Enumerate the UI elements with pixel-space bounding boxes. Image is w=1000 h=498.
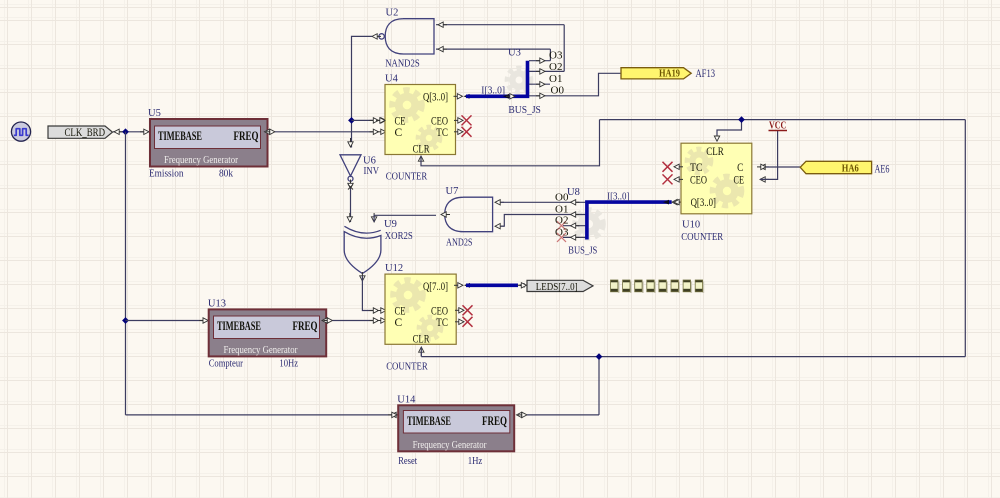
wire U2 input bottom from O3 riser [436, 46, 550, 51]
wire U7 bottom input step to U8.O1 [501, 215, 570, 227]
svg-text:U14: U14 [397, 395, 416, 406]
svg-text:U13: U13 [208, 299, 226, 310]
port LEDS[7..0] [527, 280, 593, 293]
svg-text:Q[7..0]: Q[7..0] [423, 281, 448, 293]
wire U13.FREQ to U12.C [333, 318, 387, 323]
svg-text:CE: CE [395, 305, 406, 317]
U3 fan O3 [529, 50, 563, 64]
bus arrow [464, 283, 470, 288]
svg-text:U12: U12 [385, 263, 403, 274]
svg-text:C: C [395, 317, 403, 329]
wire U14.FREQ up to reset net [527, 414, 599, 416]
counter U10 (mirrored) [681, 143, 752, 214]
wire to U13 input [126, 318, 209, 323]
svg-text:O2: O2 [555, 215, 568, 227]
wire U9 right input from U7 output [374, 215, 436, 222]
pin arrow U10.TC nc [663, 162, 684, 172]
svg-text:Frequency Generator: Frequency Generator [224, 344, 298, 356]
power VCC [769, 120, 788, 131]
bus arrows mid [503, 94, 515, 99]
svg-text:C: C [395, 127, 403, 139]
pin arrow U10.CEO nc [663, 174, 684, 184]
pin arrow U7 input top [495, 200, 504, 205]
svg-text:U3: U3 [508, 48, 521, 59]
svg-text:FREQ: FREQ [482, 413, 507, 428]
pin arrow U12.CLR [419, 347, 424, 356]
svg-text:CLR: CLR [706, 146, 724, 158]
nand gate U2 (mirrored) [379, 19, 434, 54]
svg-text:TC: TC [436, 127, 448, 139]
pin arrows U5 right [265, 129, 276, 134]
junction CLK node [122, 128, 129, 135]
wire U10.CLR to reset rail [717, 120, 742, 135]
svg-text:Reset: Reset [398, 455, 417, 467]
U3 fan O1 stub [529, 73, 562, 87]
port HA19 [621, 68, 691, 80]
svg-text:FREQ: FREQ [293, 318, 318, 333]
LED array [611, 280, 705, 293]
and gate U7 (mirrored) [445, 197, 493, 232]
svg-text:CE: CE [395, 116, 406, 128]
U8 fan O0 [555, 191, 587, 205]
svg-text:1Hz: 1Hz [468, 455, 483, 467]
svg-text:Emission: Emission [149, 168, 184, 180]
svg-text:10Hz: 10Hz [279, 357, 298, 369]
wire riser O2 to U2 [563, 25, 565, 72]
svg-text:U9: U9 [384, 219, 397, 230]
svg-text:CE: CE [734, 175, 745, 187]
bus arrows to U10 [663, 199, 681, 204]
pin arrow U9 output [360, 272, 365, 281]
svg-text:FREQ: FREQ [234, 128, 259, 143]
svg-text:TIMEBASE: TIMEBASE [217, 318, 261, 333]
gear watermark behind U3 [507, 68, 531, 92]
pin arrow U10.C [757, 164, 769, 169]
pin arrow U10.Q [674, 199, 683, 204]
pin arrow U4.Q out [454, 94, 463, 99]
svg-text:CLR: CLR [413, 333, 430, 345]
wire U12.CLR to reset rail [420, 347, 422, 357]
U8 fan O3 nc [555, 226, 587, 242]
pin arrow U12.CEO nc [455, 305, 473, 315]
svg-text:BUS_JS: BUS_JS [508, 104, 541, 116]
U8 fan O1 [555, 204, 587, 218]
pin arrow U2 output [372, 34, 381, 39]
port HA6 [800, 161, 871, 174]
svg-text:O2: O2 [549, 61, 562, 73]
wire U5.FREQ to U4.C [275, 129, 386, 134]
junction U13 tap [122, 317, 129, 324]
svg-text:Q[3..0]: Q[3..0] [423, 91, 448, 103]
svg-text:TC: TC [436, 317, 448, 329]
timebase U13 [209, 309, 327, 356]
svg-text:Compteur: Compteur [209, 357, 244, 369]
svg-text:TIMEBASE: TIMEBASE [407, 413, 451, 428]
svg-text:CEO: CEO [690, 175, 707, 187]
counter U12 [385, 274, 456, 345]
svg-text:AND2S: AND2S [446, 237, 473, 249]
wire CLK vertical left rail [125, 132, 127, 415]
U3 fan O2 [529, 61, 564, 74]
timebase U5 [150, 119, 268, 167]
wire to U4.CE [352, 118, 387, 123]
pin arrows U14 right [517, 412, 528, 417]
bus U8 vertical [587, 202, 672, 239]
U3 fan O0 to HA19 [529, 73, 621, 98]
junction U10.CLR [738, 116, 745, 123]
wire bottom reset rail [421, 356, 965, 358]
wire U9 output to U12.CE [362, 276, 386, 313]
svg-text:XOR2S: XOR2S [385, 230, 413, 242]
svg-text:AF13: AF13 [696, 68, 716, 80]
pin arrow U9 input right [371, 213, 376, 222]
pin arrow U4.TC nc [454, 127, 472, 137]
pin arrow U4.CLR [418, 156, 423, 165]
junction reset/U14 [596, 353, 603, 360]
svg-text:U4: U4 [385, 74, 399, 85]
svg-text:AE6: AE6 [875, 163, 890, 175]
wire right reset rail [964, 120, 966, 357]
svg-text:O0: O0 [555, 191, 569, 203]
svg-text:U5: U5 [148, 108, 161, 119]
U8 fan O2 nc [555, 215, 587, 231]
bus U12.Q to LEDS [466, 283, 518, 287]
pin arrow U7 output [441, 212, 450, 217]
counter U4 [385, 85, 456, 156]
pin arrows U13 right [322, 318, 333, 323]
svg-text:HA6: HA6 [842, 163, 859, 175]
svg-text:Frequency Generator: Frequency Generator [164, 154, 238, 166]
wire U2 input top from O2 riser [436, 22, 564, 27]
svg-text:TIMEBASE: TIMEBASE [158, 128, 202, 143]
svg-text:O1: O1 [549, 73, 562, 85]
clock source icon [11, 122, 30, 141]
svg-text:C: C [737, 162, 743, 174]
pin arrow U12.TC nc [455, 317, 473, 327]
pin arrow U12.Q out [454, 283, 463, 288]
bus U4.Q to U3 [466, 61, 528, 97]
gear watermark behind U8 [575, 210, 603, 238]
wire U7 top input to U8.O0 [501, 201, 570, 203]
wire CLK_BRD to U5 [113, 129, 150, 134]
svg-text:I[3..0]: I[3..0] [481, 85, 505, 96]
svg-text:O1: O1 [555, 204, 568, 216]
svg-text:U10: U10 [682, 220, 700, 231]
svg-text:Frequency Generator: Frequency Generator [413, 439, 487, 451]
svg-text:COUNTER: COUNTER [386, 361, 428, 373]
svg-text:COUNTER: COUNTER [386, 171, 428, 183]
bus arrow in [464, 94, 470, 99]
wire U4.CLR to reset loop [421, 120, 600, 166]
svg-text:I[3..0]: I[3..0] [607, 192, 629, 203]
svg-text:U8: U8 [567, 187, 580, 198]
pin arrow U10.CLR [714, 132, 719, 141]
wire to U14 input [126, 412, 401, 417]
inverter U6 [340, 155, 361, 181]
wire U2 output to CE/INV rail [352, 36, 373, 147]
svg-text:80k: 80k [219, 168, 233, 180]
svg-text:CLR: CLR [413, 144, 430, 156]
svg-text:CLK_BRD: CLK_BRD [65, 127, 106, 139]
wire U10.CE to VCC [760, 131, 778, 179]
bus arrows at LEDS [518, 283, 527, 288]
pin arrow U6 output [348, 180, 353, 189]
pin arrow U10.CE [760, 177, 769, 182]
svg-text:Q[3..0]: Q[3..0] [691, 197, 716, 209]
svg-text:CEO: CEO [431, 116, 448, 128]
pin arrow U4.CEO nc [454, 115, 472, 125]
timebase U14 [398, 405, 514, 451]
port CLK_BRD [48, 126, 113, 139]
svg-text:COUNTER: COUNTER [681, 231, 724, 243]
svg-text:U2: U2 [386, 8, 399, 19]
wire U6 to U9 [350, 189, 352, 223]
svg-text:O0: O0 [551, 85, 565, 97]
svg-text:VCC: VCC [769, 120, 786, 131]
pin arrow U4.CE in [376, 118, 385, 123]
svg-text:U7: U7 [446, 186, 459, 197]
svg-text:NAND2S: NAND2S [385, 57, 420, 69]
pin arrow U7 input bottom [495, 224, 504, 229]
svg-text:O3: O3 [555, 226, 569, 238]
svg-text:HA19: HA19 [659, 68, 680, 80]
pin arrow U6 input [348, 138, 353, 147]
wire U10.C to HA6 [766, 166, 800, 168]
junction U4.CE tap [348, 117, 355, 124]
svg-text:TC: TC [690, 162, 703, 174]
pin arrow U9 input left [347, 213, 352, 222]
xor gate U9 (pointing down) [344, 226, 381, 273]
svg-text:INV: INV [364, 165, 380, 177]
svg-text:CEO: CEO [431, 305, 448, 317]
svg-text:BUS_JS: BUS_JS [568, 244, 597, 256]
svg-text:LEDS[7..0]: LEDS[7..0] [536, 281, 578, 293]
svg-text:O3: O3 [549, 50, 563, 62]
wire riser O3 to U2 [549, 49, 551, 61]
wire top reset rail [600, 119, 966, 121]
